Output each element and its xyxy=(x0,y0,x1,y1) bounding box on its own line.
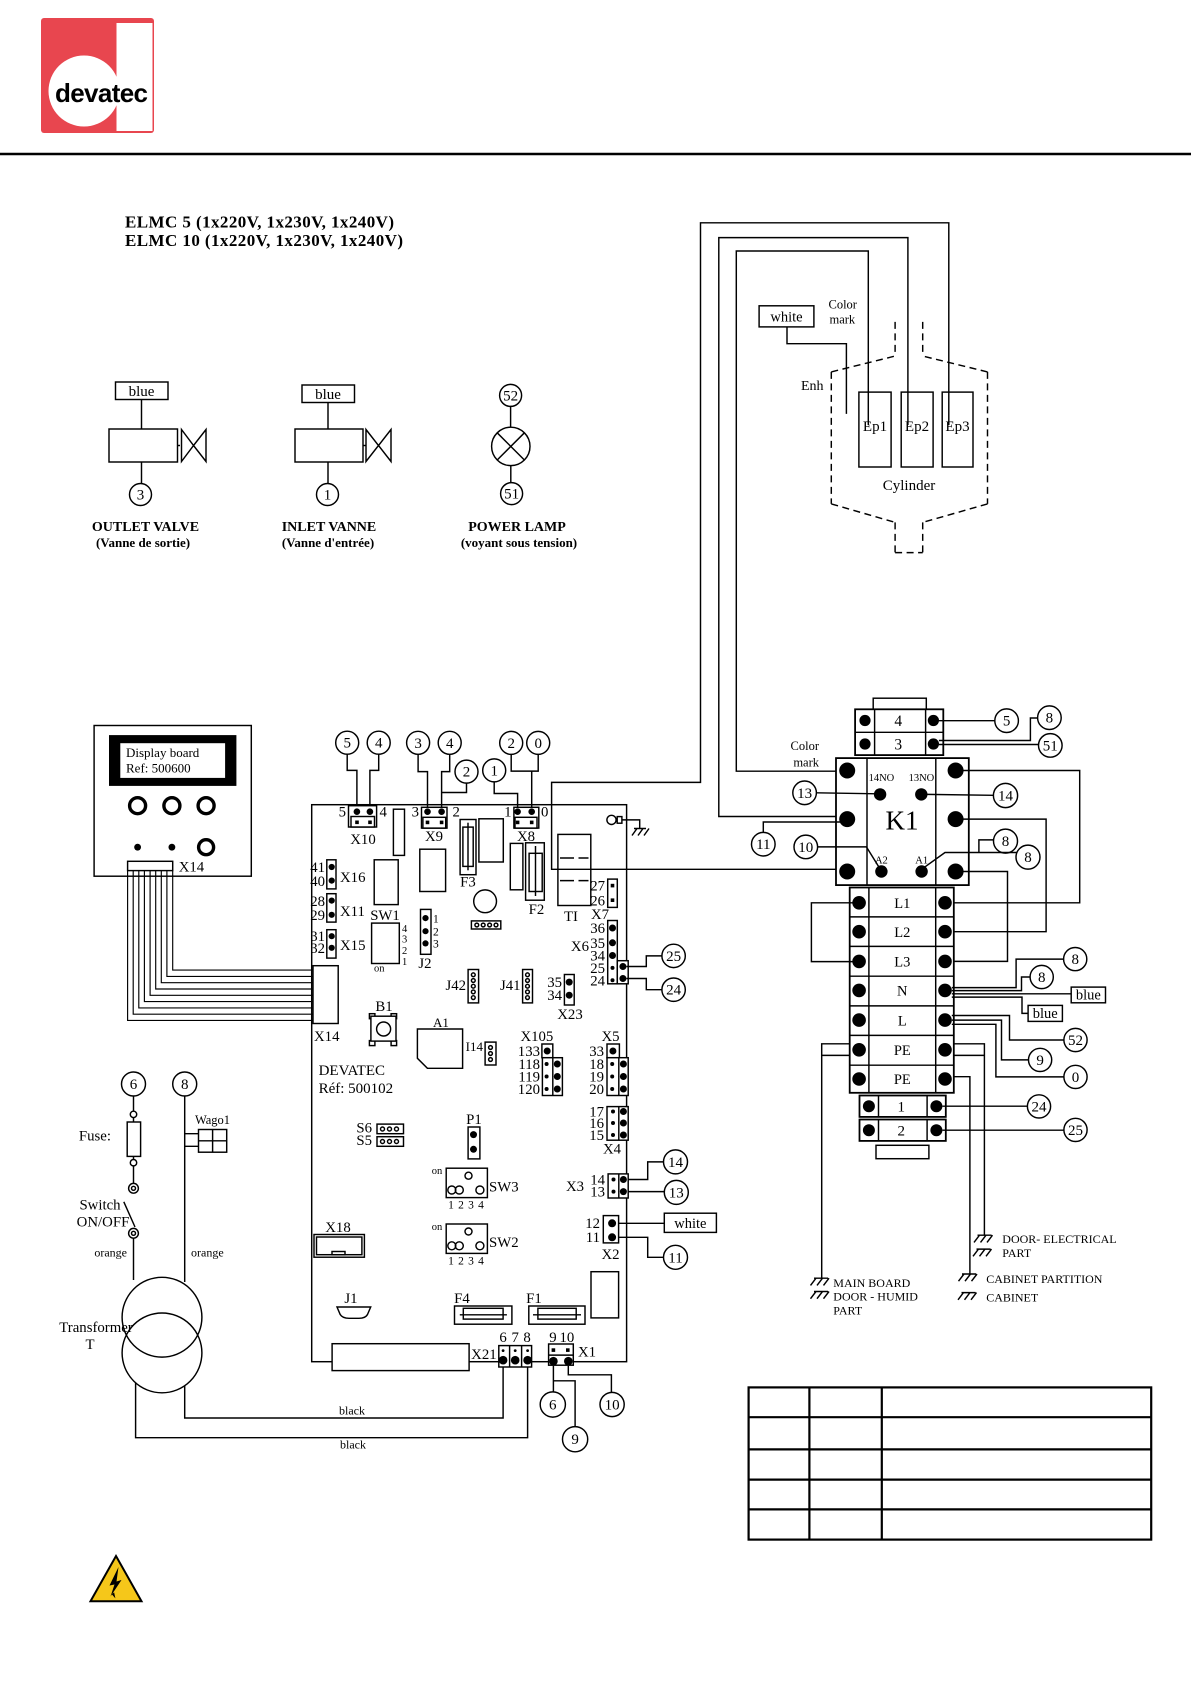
outlet valve: blue label xyxy=(116,382,169,400)
wire X6.24 to node 24 xyxy=(626,979,662,990)
svg-text:on: on xyxy=(432,1166,443,1177)
svg-text:black: black xyxy=(340,1438,366,1452)
svg-text:10: 10 xyxy=(798,840,813,856)
svg-text:8: 8 xyxy=(1071,952,1079,968)
warning triangle xyxy=(91,1556,142,1601)
node 9 (L) xyxy=(1029,1048,1052,1071)
svg-text:6: 6 xyxy=(549,1398,557,1414)
wire into Ep3 xyxy=(948,392,950,425)
wire 2 to X9.2 xyxy=(442,783,467,792)
svg-text:Ep2: Ep2 xyxy=(905,419,929,435)
svg-text:CABINET: CABINET xyxy=(986,1291,1039,1305)
node 14 xyxy=(993,783,1017,807)
wire 11 to K1 mid-left xyxy=(763,822,845,832)
terminal block 4/3 xyxy=(855,709,943,755)
svg-text:Wago1: Wago1 xyxy=(195,1113,230,1127)
svg-text:X14: X14 xyxy=(179,860,205,876)
svg-text:ELMC 5 (1x220V, 1x230V, 1x240V: ELMC 5 (1x220V, 1x230V, 1x240V) xyxy=(125,213,394,232)
wire N to node 8 (a) xyxy=(952,959,1064,988)
wire 8 to wago and transformer (orange) xyxy=(185,1096,199,1282)
connector X3 xyxy=(608,1174,628,1198)
svg-text:4: 4 xyxy=(402,924,408,935)
node 10 (X1) xyxy=(600,1392,624,1416)
svg-text:X11: X11 xyxy=(340,904,365,920)
svg-text:X9: X9 xyxy=(425,829,443,845)
svg-text:on: on xyxy=(432,1222,443,1233)
svg-text:13: 13 xyxy=(669,1185,684,1201)
earth stud on board xyxy=(607,815,616,824)
terminal 1/2 bracket xyxy=(876,1145,929,1158)
svg-text:8: 8 xyxy=(1046,711,1054,727)
svg-text:blue: blue xyxy=(129,384,155,400)
node 6 (fuse) xyxy=(122,1072,146,1096)
buzzer xyxy=(474,890,497,913)
svg-text:40: 40 xyxy=(310,874,325,890)
svg-text:I14: I14 xyxy=(466,1039,484,1054)
svg-text:X16: X16 xyxy=(340,870,365,886)
svg-text:2: 2 xyxy=(458,1200,464,1212)
svg-text:2: 2 xyxy=(433,927,439,939)
svg-text:P1: P1 xyxy=(466,1112,482,1128)
svg-text:2: 2 xyxy=(453,805,460,821)
node 0 (L) xyxy=(1064,1065,1087,1088)
wire 52 to lamp xyxy=(510,406,512,427)
svg-text:25: 25 xyxy=(1068,1123,1083,1139)
electrode Ep1 xyxy=(859,392,891,467)
terminal L xyxy=(852,1013,866,1027)
wire N to blue (b) xyxy=(952,997,1028,1013)
svg-text:K1: K1 xyxy=(886,806,919,836)
header rule xyxy=(0,153,1191,155)
svg-text:A1: A1 xyxy=(433,1015,449,1030)
svg-text:7: 7 xyxy=(511,1330,518,1346)
wire blue to inlet coil xyxy=(327,403,329,430)
wire X1.10 to node 10 xyxy=(568,1366,611,1393)
ground DOOR-HUMID xyxy=(811,1292,830,1299)
wire X3.14 to node 14 xyxy=(627,1162,664,1180)
wire lamp to node 51 xyxy=(510,466,512,483)
node 25 (terminal 2) xyxy=(1064,1118,1087,1141)
node 8 (A1 b) xyxy=(1016,845,1040,869)
svg-text:20: 20 xyxy=(589,1082,604,1098)
inlet valve body xyxy=(366,430,391,462)
power lamp HL xyxy=(492,427,530,465)
terminal L1 xyxy=(852,896,866,910)
svg-text:white: white xyxy=(674,1216,706,1232)
connector X21 xyxy=(499,1346,532,1367)
svg-text:blue: blue xyxy=(315,387,341,403)
cylinder outline (dashed) xyxy=(831,322,987,553)
TABLE xyxy=(749,1387,1152,1539)
svg-text:3: 3 xyxy=(137,488,145,504)
node 5 (K1) xyxy=(995,709,1019,733)
svg-text:J1: J1 xyxy=(344,1291,357,1307)
connector X14 (board side) xyxy=(313,966,338,1024)
svg-text:J2: J2 xyxy=(418,956,431,972)
svg-text:4: 4 xyxy=(478,1200,484,1212)
terminal PE 2 xyxy=(852,1072,866,1086)
svg-text:13NO: 13NO xyxy=(909,773,935,784)
wire X2.12 to white xyxy=(616,1222,664,1224)
svg-text:9: 9 xyxy=(1036,1053,1044,1069)
svg-text:L3: L3 xyxy=(894,955,910,971)
label blue (b) xyxy=(1028,1005,1062,1021)
svg-text:L2: L2 xyxy=(894,925,910,941)
svg-text:3: 3 xyxy=(468,1256,474,1268)
svg-text:4: 4 xyxy=(478,1256,484,1268)
node 51 xyxy=(501,483,523,505)
svg-text:Switch: Switch xyxy=(79,1198,121,1214)
svg-text:mark: mark xyxy=(830,313,856,327)
svg-text:Transformer: Transformer xyxy=(59,1320,133,1336)
svg-text:T: T xyxy=(85,1337,94,1353)
node 1 xyxy=(317,484,339,506)
wire N to node 8 (b) xyxy=(952,977,1030,991)
svg-text:X21: X21 xyxy=(471,1347,496,1363)
svg-text:1: 1 xyxy=(448,1200,454,1212)
svg-text:6: 6 xyxy=(499,1330,506,1346)
connector X7 xyxy=(608,879,618,907)
wire coil to node 1 xyxy=(327,462,329,484)
svg-text:white: white xyxy=(770,310,802,326)
svg-text:4: 4 xyxy=(375,736,383,752)
svg-text:14: 14 xyxy=(998,789,1014,805)
connector X11 xyxy=(327,894,336,922)
terminal 1 block xyxy=(860,1096,946,1117)
svg-text:PE: PE xyxy=(894,1043,911,1059)
svg-text:14NO: 14NO xyxy=(869,773,895,784)
svg-text:MAIN BOARD: MAIN BOARD xyxy=(833,1276,910,1290)
svg-text:34: 34 xyxy=(547,988,562,1004)
button 2 xyxy=(164,798,180,814)
svg-text:X105: X105 xyxy=(520,1029,553,1045)
switch ON/OFF xyxy=(129,1183,139,1193)
svg-text:1: 1 xyxy=(490,763,498,779)
svg-text:OUTLET VALVE: OUTLET VALVE xyxy=(92,520,199,535)
wire 13NO to node 14 xyxy=(927,793,994,796)
label white (X2) xyxy=(664,1213,716,1232)
electrode Ep2 xyxy=(901,392,933,467)
wire N to blue (a) xyxy=(952,993,1071,995)
svg-text:2: 2 xyxy=(898,1123,906,1139)
svg-text:Ref: 500600: Ref: 500600 xyxy=(126,761,191,776)
node 52 xyxy=(500,384,522,406)
connector X2 xyxy=(603,1216,618,1243)
wire 2+0 to X8.0 xyxy=(511,754,538,808)
jumper J42 xyxy=(468,970,479,1003)
connector X1 xyxy=(549,1344,574,1365)
label blue (a) xyxy=(1071,987,1105,1003)
fuse F xyxy=(127,1122,140,1156)
svg-text:Color: Color xyxy=(829,298,858,312)
svg-text:0: 0 xyxy=(541,805,548,821)
wire A1 to nodes 8 8 xyxy=(922,840,1017,869)
wire Ep1 (cylinder to K1 top-left) xyxy=(736,251,868,771)
node 8 (N b) xyxy=(1030,965,1053,988)
svg-text:L: L xyxy=(898,1013,907,1029)
inlet valve coil xyxy=(295,429,363,462)
wire L to node 0 xyxy=(952,1024,1064,1077)
component rect (below X2) xyxy=(591,1272,619,1318)
wire Ep3 (cylinder to K1 bottom-left) xyxy=(552,223,949,870)
svg-text:24: 24 xyxy=(666,983,682,999)
node 2 (X8) xyxy=(500,731,523,754)
wire K1 mid-right to L2 xyxy=(952,819,1046,932)
connector X8 xyxy=(514,807,539,828)
wire coil to node 3 xyxy=(141,462,143,484)
wire 4 to X9.2 xyxy=(442,754,450,808)
wire X2.11 to node 11 xyxy=(616,1237,663,1257)
connector X6 xyxy=(608,921,618,984)
svg-text:INLET VANNE: INLET VANNE xyxy=(282,520,377,535)
svg-text:X3: X3 xyxy=(566,1179,584,1195)
svg-text:X10: X10 xyxy=(350,832,375,848)
node 3 xyxy=(130,484,152,506)
node 52 (L) xyxy=(1064,1028,1087,1051)
transformer TI xyxy=(558,834,591,905)
svg-text:2: 2 xyxy=(458,1256,464,1268)
svg-text:51: 51 xyxy=(1043,738,1058,754)
svg-text:3: 3 xyxy=(468,1200,474,1212)
node 11 (X2) xyxy=(664,1245,688,1269)
svg-text:CABINET PARTITION: CABINET PARTITION xyxy=(986,1272,1103,1286)
svg-text:blue: blue xyxy=(1076,988,1101,1004)
svg-text:X6: X6 xyxy=(571,939,589,955)
svg-text:32: 32 xyxy=(310,941,325,957)
LCD frame xyxy=(109,735,236,786)
relay rect (left of X21) xyxy=(332,1344,469,1371)
wire 4 to X10.4 xyxy=(370,754,379,808)
wire switch to transformer (orange) xyxy=(133,1238,135,1280)
wire into Ep1 xyxy=(867,392,869,425)
wire K1 bot-right to L3 xyxy=(952,872,1008,962)
svg-text:2: 2 xyxy=(402,946,407,957)
connector X14 (display side) xyxy=(128,861,173,870)
svg-text:DEVATEC: DEVATEC xyxy=(319,1063,385,1079)
ground CABINET PARTITION xyxy=(959,1274,978,1281)
display board outline xyxy=(94,726,251,877)
svg-text:X4: X4 xyxy=(603,1142,622,1158)
svg-text:DOOR - HUMID: DOOR - HUMID xyxy=(833,1290,918,1304)
svg-text:24: 24 xyxy=(1032,1099,1048,1115)
fuse F2 xyxy=(526,843,545,900)
wire transformer to X21.8 (black) xyxy=(136,1367,528,1438)
node 10 (K1) xyxy=(794,835,818,859)
terminal L2 xyxy=(852,925,866,939)
svg-text:Fuse:: Fuse: xyxy=(79,1129,111,1145)
wire X1.9 to nodes 6 and 9 xyxy=(553,1366,575,1427)
svg-text:SW3: SW3 xyxy=(489,1180,519,1196)
fuse F3 xyxy=(460,820,476,875)
svg-text:25: 25 xyxy=(666,949,681,965)
ribbon cable xyxy=(128,871,313,1021)
svg-text:L1: L1 xyxy=(894,896,910,912)
svg-text:X15: X15 xyxy=(340,938,365,954)
connector X9 xyxy=(422,807,448,828)
wire X3.13 to node 13 xyxy=(627,1191,664,1193)
svg-text:14: 14 xyxy=(668,1155,684,1171)
terminal PE 1 xyxy=(852,1043,866,1057)
svg-text:orange: orange xyxy=(94,1246,127,1260)
wire 5 to X10.5 xyxy=(347,754,357,808)
svg-text:POWER LAMP: POWER LAMP xyxy=(468,520,566,535)
svg-text:8: 8 xyxy=(523,1330,530,1346)
svg-text:devatec: devatec xyxy=(55,78,148,108)
component rect (above SW1) xyxy=(374,860,398,905)
outlet valve coil xyxy=(109,429,178,462)
wire Enh electrode (white) xyxy=(787,327,846,414)
svg-text:3: 3 xyxy=(433,939,439,951)
wire 10 to A2 xyxy=(818,847,880,868)
ground DOOR-ELECTRICAL xyxy=(974,1235,993,1242)
wire into Ep2 xyxy=(907,392,909,425)
svg-text:3: 3 xyxy=(402,935,407,946)
node 9 (X1) xyxy=(563,1427,588,1452)
ground CABINET xyxy=(958,1293,977,1300)
node 51 xyxy=(1039,734,1063,758)
wire L to node 9 xyxy=(952,1020,1029,1060)
ground DOOR-ELECTRICAL 2 xyxy=(973,1249,992,1256)
node 11 (K1) xyxy=(752,832,776,856)
button 1 xyxy=(130,798,146,814)
main board outline xyxy=(312,805,627,1362)
node 6 (X1) xyxy=(540,1392,565,1417)
svg-text:1: 1 xyxy=(504,805,511,821)
connector X10 xyxy=(349,806,377,827)
svg-text:10: 10 xyxy=(605,1398,620,1414)
svg-text:orange: orange xyxy=(191,1246,224,1260)
svg-text:3: 3 xyxy=(414,736,422,752)
svg-text:11: 11 xyxy=(756,837,770,853)
logo devatec xyxy=(41,18,154,133)
electrode Ep3 xyxy=(942,392,973,467)
svg-text:8: 8 xyxy=(1002,834,1010,850)
node 4 (X10) xyxy=(367,731,390,754)
node 13 xyxy=(793,781,817,805)
svg-text:X23: X23 xyxy=(557,1007,582,1023)
component rect (above J2) xyxy=(420,849,446,891)
svg-text:PART: PART xyxy=(1002,1246,1032,1260)
label white xyxy=(759,306,814,327)
svg-text:3: 3 xyxy=(412,805,419,821)
node 25 xyxy=(662,944,685,967)
svg-text:Enh: Enh xyxy=(801,379,824,394)
svg-text:15: 15 xyxy=(589,1128,604,1144)
node 24 (terminal 1) xyxy=(1027,1095,1050,1118)
svg-text:Réf: 500102: Réf: 500102 xyxy=(319,1081,394,1097)
connector X4 xyxy=(607,1107,628,1141)
inlet valve: blue label xyxy=(302,385,355,403)
svg-text:X18: X18 xyxy=(325,1220,350,1236)
svg-text:1: 1 xyxy=(448,1256,454,1268)
svg-text:3: 3 xyxy=(894,737,902,754)
wire PE2 right to grounds xyxy=(954,1077,970,1274)
button 4 xyxy=(199,840,214,855)
jumper J2 xyxy=(421,909,432,954)
ground (board) xyxy=(632,829,649,836)
svg-text:black: black xyxy=(339,1404,365,1418)
terminal block body xyxy=(850,888,954,1093)
svg-text:Display board: Display board xyxy=(126,745,200,760)
svg-text:F2: F2 xyxy=(529,902,545,918)
wire earth stud to ground xyxy=(622,820,640,829)
svg-text:DOOR- ELECTRICAL: DOOR- ELECTRICAL xyxy=(1002,1232,1116,1246)
svg-text:2: 2 xyxy=(463,765,471,781)
svg-text:F4: F4 xyxy=(454,1291,470,1307)
svg-text:SW1: SW1 xyxy=(370,908,400,924)
svg-text:8: 8 xyxy=(1024,850,1032,866)
svg-text:4: 4 xyxy=(446,736,454,752)
svg-text:0: 0 xyxy=(534,736,542,752)
wire 1 to X8.1 xyxy=(494,782,517,808)
svg-text:5: 5 xyxy=(339,805,346,821)
wire L to node 52 xyxy=(952,1016,1064,1041)
svg-text:X1: X1 xyxy=(578,1345,596,1361)
K1 terminal dots xyxy=(839,763,855,779)
svg-text:mark: mark xyxy=(793,756,819,770)
svg-text:Ep3: Ep3 xyxy=(945,419,969,435)
wire 3 to X9.3 xyxy=(418,754,427,808)
svg-text:2: 2 xyxy=(507,736,515,752)
jumper L1-L3 left xyxy=(811,903,859,962)
svg-text:52: 52 xyxy=(1068,1033,1083,1049)
svg-text:1: 1 xyxy=(433,914,439,926)
led 2 xyxy=(169,844,176,851)
component rect (right of X10) xyxy=(393,809,404,855)
svg-text:ON/OFF: ON/OFF xyxy=(77,1215,130,1231)
svg-text:5: 5 xyxy=(1003,714,1011,730)
wire fuse to switch xyxy=(133,1166,135,1184)
wire terminal 2 to node 25 xyxy=(942,1129,1064,1131)
jumper J41 xyxy=(523,970,533,1003)
svg-text:0: 0 xyxy=(1072,1070,1080,1086)
node 3 (X9) xyxy=(407,731,430,754)
svg-text:(Vanne d'entrée): (Vanne d'entrée) xyxy=(282,535,374,550)
node 8 (lamp feed) xyxy=(1038,706,1062,730)
svg-text:51: 51 xyxy=(504,487,519,503)
svg-text:13: 13 xyxy=(797,786,812,802)
wire 3 to nodes 51 and 8 xyxy=(939,718,1039,745)
svg-text:1: 1 xyxy=(402,957,407,968)
component rect (right of F3) xyxy=(479,819,503,862)
wire transformer to X21.6 (black) xyxy=(185,1367,503,1418)
node 1 (X8) xyxy=(483,759,506,782)
wire blue to outlet coil xyxy=(141,400,143,430)
wire PE1 left to grounds xyxy=(822,1044,850,1278)
svg-text:X14: X14 xyxy=(314,1029,340,1045)
svg-text:Cylinder: Cylinder xyxy=(883,478,936,494)
svg-text:F3: F3 xyxy=(460,875,476,891)
svg-text:6: 6 xyxy=(130,1077,138,1093)
node 8 (wago) xyxy=(173,1072,197,1096)
led 1 xyxy=(134,844,141,851)
connector X16 xyxy=(327,860,336,889)
node 2 (X9) xyxy=(455,760,478,783)
svg-text:120: 120 xyxy=(518,1082,540,1098)
svg-text:1: 1 xyxy=(324,488,332,504)
svg-text:B1: B1 xyxy=(375,999,392,1015)
svg-text:Color: Color xyxy=(791,739,820,753)
outlet valve body xyxy=(182,430,207,462)
svg-text:4: 4 xyxy=(894,713,902,730)
svg-text:S5: S5 xyxy=(356,1133,372,1149)
svg-text:36: 36 xyxy=(590,921,605,937)
svg-text:8: 8 xyxy=(1038,970,1046,986)
svg-text:4: 4 xyxy=(380,805,388,821)
svg-text:10: 10 xyxy=(560,1330,575,1346)
wire terminal 1 to node 24 xyxy=(942,1105,1027,1107)
svg-text:5: 5 xyxy=(343,736,351,752)
